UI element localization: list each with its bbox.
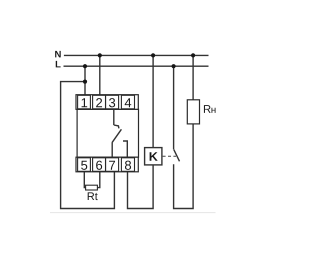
node L-to-contact junction	[172, 64, 176, 68]
wire branch from node to left down around to terminal 7	[61, 82, 115, 209]
fixed contact of terminal 8	[123, 141, 127, 157]
wire terminal 6 to Rt	[97, 172, 99, 188]
dashed actuation link K to contact	[163, 155, 176, 157]
wire N to terminal 2	[99, 55, 101, 94]
faint separator line	[50, 212, 216, 214]
pin number 4	[125, 98, 132, 107]
resistor Rt (thermistor)	[86, 185, 98, 190]
wire terminal 5 to Rt	[84, 172, 85, 188]
terminal 3 box	[106, 95, 119, 109]
wire N rail	[64, 54, 209, 56]
terminal strip top	[76, 95, 138, 110]
label L	[56, 61, 61, 68]
terminal strip bottom	[76, 157, 138, 172]
label Rн	[204, 105, 216, 113]
pin number 5	[81, 161, 87, 170]
wire contact K1 bottom to resistor Rн bottom	[174, 124, 194, 209]
wire N to relay coil K	[152, 55, 154, 147]
contact K1 blade	[174, 150, 180, 162]
wire terminal 3 down	[113, 109, 115, 125]
label N	[55, 51, 61, 58]
node N-to-Rн junction	[191, 53, 195, 57]
terminal 4 box	[121, 95, 134, 109]
wire coil K bottom to terminal 8	[128, 165, 154, 209]
device body U1	[77, 109, 138, 157]
wire terminal 7 stub	[111, 143, 113, 157]
node N-to-K junction	[151, 53, 155, 57]
pin number 7	[109, 161, 115, 170]
wire L rail	[64, 65, 209, 67]
terminal 6 box	[93, 158, 106, 172]
pin number 8	[125, 161, 131, 170]
label K	[150, 152, 158, 161]
node N-to-2 junction	[98, 53, 102, 57]
node L-to-1 junction	[83, 64, 87, 68]
terminal 5 box	[78, 158, 91, 172]
pin number 3	[109, 98, 115, 107]
wire L to terminal 1	[84, 66, 86, 95]
terminal 1 box	[78, 95, 91, 109]
wire N to resistor Rн	[192, 55, 194, 99]
pin number 1	[82, 98, 88, 107]
pin number 6	[96, 161, 102, 170]
terminal 8 box	[121, 158, 134, 172]
label Rt	[88, 192, 98, 200]
wire L to contact K1 top	[173, 66, 175, 149]
resistor Rн (load)	[187, 100, 199, 124]
fixed contact hook of terminal 3	[114, 125, 119, 128]
node branch junction on wire 1	[83, 80, 87, 84]
switch blade	[112, 129, 122, 143]
relay coil K box	[145, 148, 162, 165]
terminal 7 box	[106, 158, 119, 172]
contact inside device: from terminal 3	[112, 109, 127, 157]
pin number 2	[96, 98, 102, 107]
terminal 2 box	[93, 95, 106, 109]
